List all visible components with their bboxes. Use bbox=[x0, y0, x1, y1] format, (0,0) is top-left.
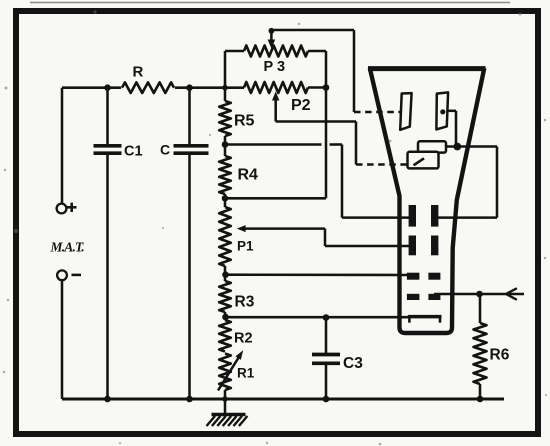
resistor R5 bbox=[219, 101, 231, 136]
electrode anode upper box bbox=[418, 141, 446, 152]
wire cathode node to cathode bbox=[226, 316, 411, 319]
wire top HT rail bbox=[62, 86, 326, 89]
node junction R6 top bbox=[476, 291, 483, 298]
node junction R5/R4 bbox=[222, 141, 229, 148]
resistor R3 bbox=[219, 281, 231, 312]
deflection plate X (left) bbox=[400, 93, 411, 130]
terminal + (M.A.T. positive) bbox=[57, 203, 77, 214]
svg-text:P2: P2 bbox=[291, 97, 311, 114]
node junction chain / top rail bbox=[222, 85, 228, 91]
node junction C1 / top rail bbox=[104, 84, 111, 91]
wire anode node right loop to first anode bbox=[437, 147, 497, 218]
svg-text:R3: R3 bbox=[235, 294, 255, 311]
wire P1/R3 node to grid bbox=[226, 273, 409, 276]
potentiometer P2 bbox=[244, 82, 308, 93]
wire box bottom (R4 junction to box) bbox=[225, 197, 326, 200]
electrode dashes pair 3 bbox=[407, 273, 441, 280]
node junction C3 tap bbox=[323, 314, 330, 321]
svg-text:R5: R5 bbox=[234, 113, 255, 130]
svg-text:C3: C3 bbox=[343, 355, 363, 372]
ground (chassis) bbox=[207, 415, 248, 427]
wire Y plate to anode node bbox=[447, 111, 456, 147]
deflection plate Y (right) bbox=[436, 92, 448, 129]
potentiometer P1 bbox=[219, 207, 231, 266]
resistor R2 bbox=[219, 320, 231, 352]
resistor R6 bbox=[474, 294, 487, 399]
wire heater to right with arrow bbox=[434, 289, 524, 300]
node junction P1/R3 bbox=[222, 271, 229, 278]
svg-text:R: R bbox=[133, 64, 144, 81]
wire divider chain top segment bbox=[224, 51, 227, 101]
node junction R4 bottom bbox=[222, 195, 229, 202]
electrode grid bars pair 1 bbox=[409, 205, 439, 227]
svg-text:P 3: P 3 bbox=[264, 59, 286, 75]
wire dashed to Y plate bbox=[356, 163, 408, 165]
wire P2 wiper to Y plates bbox=[272, 92, 356, 165]
node junction C1 / bus bbox=[104, 396, 111, 403]
svg-text:R6: R6 bbox=[490, 347, 510, 364]
resistor R bbox=[122, 82, 174, 93]
CRT tube envelope bbox=[368, 68, 486, 333]
node junction chain / bus bbox=[222, 396, 228, 402]
node junction C3 / bus bbox=[323, 396, 330, 403]
node junction C / bus bbox=[186, 396, 193, 403]
node junction R6 / bus bbox=[477, 396, 484, 403]
node junction R3/R2 cathode node bbox=[222, 314, 229, 321]
capacitor C3 bbox=[312, 318, 340, 400]
wire R5/R4 node to first anode bbox=[225, 145, 410, 218]
svg-text:M.A.T.: M.A.T. bbox=[50, 240, 85, 255]
wire ground bus bottom bbox=[62, 398, 504, 401]
electrode grid bars pair 2 bbox=[409, 236, 439, 256]
electrode cathode/heater bbox=[408, 317, 442, 323]
wire P3 wiper to deflection plate X bbox=[268, 28, 354, 112]
wire R3-R2 segment bbox=[224, 312, 227, 320]
resistor R1 (variable) bbox=[218, 350, 243, 390]
capacitor C bbox=[174, 88, 209, 399]
wire box right side bbox=[325, 51, 328, 198]
wire R5-R4 segment bbox=[224, 136, 227, 156]
wire + terminal lead bbox=[61, 88, 64, 204]
potentiometer P3 bbox=[225, 46, 326, 57]
svg-text:C1: C1 bbox=[124, 144, 143, 160]
wire R4-P1 segment bbox=[224, 194, 227, 207]
electrode focus lower box bbox=[408, 152, 439, 169]
wire - terminal lead bbox=[61, 280, 64, 399]
svg-text:R4: R4 bbox=[238, 167, 259, 184]
svg-text:C: C bbox=[160, 142, 170, 158]
capacitor C1 bbox=[94, 88, 122, 399]
node junction C / top rail bbox=[186, 84, 193, 91]
svg-text:R1: R1 bbox=[237, 366, 255, 381]
terminal - (M.A.T. negative) bbox=[57, 270, 81, 280]
wire P1 wiper to second grid bbox=[237, 225, 410, 246]
node junction anode bbox=[453, 143, 461, 151]
electrode dashes pair 4 bbox=[407, 294, 441, 300]
wire P1-R3 segment bbox=[224, 266, 227, 281]
svg-text:R2: R2 bbox=[234, 331, 253, 347]
node junction P2 right / box bbox=[323, 84, 330, 91]
wire chain to ground bbox=[224, 390, 227, 414]
svg-text:P1: P1 bbox=[237, 239, 254, 254]
resistor R4 bbox=[219, 156, 231, 194]
wire dashed to X plate bbox=[354, 111, 400, 113]
